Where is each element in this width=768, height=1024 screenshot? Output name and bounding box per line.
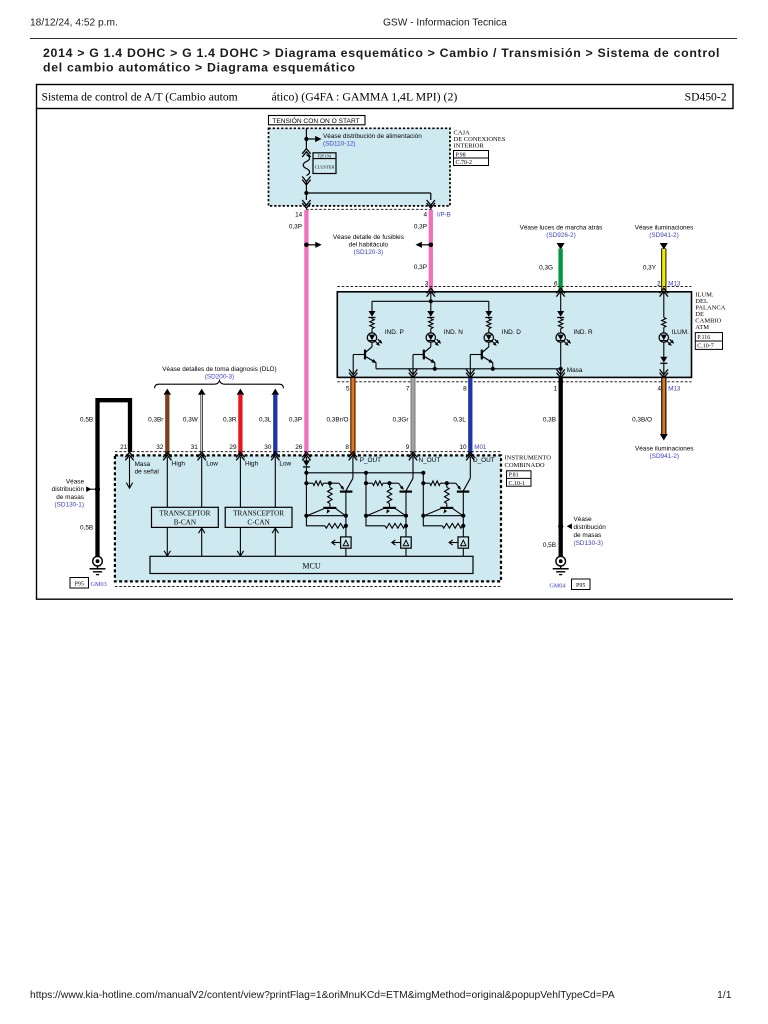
svg-text:M13: M13	[668, 386, 681, 393]
arrow to véase iluminaciones	[660, 434, 668, 441]
svg-text:10: 10	[459, 444, 467, 451]
gauge driver cell D_OUT	[422, 473, 424, 516]
arrow to power distribution note	[306, 138, 315, 140]
svg-text:Véase distribución de alimenta: Véase distribución de alimentación	[323, 133, 422, 140]
feed arrow	[660, 243, 668, 250]
ILUM box top separation dashes	[337, 286, 691, 288]
wire 0,5B signal ground loop	[98, 400, 131, 556]
node: feed junction	[304, 137, 308, 141]
svg-text:IND. P: IND. P	[385, 329, 404, 336]
feedback resistor	[366, 516, 385, 526]
indicator branch IND. P	[371, 301, 373, 311]
svg-text:P95: P95	[75, 582, 84, 588]
fuse label box F28 10A / CLUSTER	[313, 153, 336, 174]
wire 0,3L	[273, 394, 277, 455]
svg-text:CLUSTER: CLUSTER	[315, 165, 335, 170]
wire 0,3L	[468, 378, 472, 455]
wire 0,3W	[200, 394, 202, 455]
svg-text:21: 21	[120, 444, 128, 451]
ref box P95	[70, 578, 89, 589]
svg-text:P_OUT: P_OUT	[360, 457, 381, 464]
svg-text:32: 32	[156, 444, 164, 451]
svg-text:Véase luces de marcha atrás: Véase luces de marcha atrás	[520, 224, 603, 231]
svg-text:C-CAN: C-CAN	[247, 518, 270, 526]
svg-text:C.70-2: C.70-2	[456, 160, 473, 166]
instrument cluster separation dashes	[115, 451, 501, 453]
svg-text:1: 1	[554, 386, 558, 393]
entry arrows	[125, 452, 133, 457]
junction box CAJA DE CONEXIONES INTERIOR (dashed blue)	[269, 128, 451, 206]
svg-text:distribución: distribución	[52, 486, 85, 493]
svg-text:0,3Br/O: 0,3Br/O	[326, 417, 348, 424]
output buffer	[401, 537, 412, 548]
svg-text:de masas: de masas	[574, 532, 602, 539]
LED IND. P	[367, 333, 376, 342]
driver supply rail	[306, 472, 423, 474]
svg-text:0,3Gr: 0,3Gr	[393, 417, 410, 424]
wire 0,3Br/O	[350, 378, 355, 455]
svg-text:IND. R: IND. R	[574, 329, 594, 336]
transistor IND. N driver	[424, 347, 431, 353]
svg-text:SD450-2: SD450-2	[685, 91, 727, 104]
svg-text:0,5B: 0,5B	[80, 417, 93, 424]
TRANSCEPTOR B-CAN	[152, 507, 219, 527]
bias resistor	[446, 483, 448, 487]
ground GM03	[93, 556, 103, 566]
connector ref box P.98 C.70-2	[454, 151, 489, 166]
svg-text:ático) (G4FA : GAMMA 1,4L MPI): ático) (G4FA : GAMMA 1,4L MPI) (2)	[272, 90, 458, 104]
emitter rail	[366, 515, 406, 517]
svg-text:30: 30	[264, 444, 272, 451]
svg-text:I/P-B: I/P-B	[437, 211, 451, 218]
MCU box	[150, 556, 473, 573]
svg-text:1/1: 1/1	[717, 990, 732, 1001]
LED ILUM.	[659, 333, 668, 342]
connector ref box P.116 C.10-7	[695, 333, 722, 350]
signal ground arrow pin 21	[129, 457, 131, 487]
svg-text:Véase: Véase	[574, 516, 593, 523]
svg-text:P.81: P.81	[509, 473, 519, 479]
svg-text:0,3W: 0,3W	[183, 417, 199, 424]
output buffer	[458, 537, 469, 548]
indicator branch IND. D	[488, 301, 490, 311]
svg-text:de masas: de masas	[56, 494, 84, 501]
pin 26 internal diode	[305, 457, 307, 460]
LED IND. R	[556, 333, 565, 342]
ILUM box bottom separation dashes	[337, 381, 691, 383]
connector ref box P.81 C.10-1	[507, 471, 532, 486]
DLD arrow	[164, 389, 172, 395]
svg-text:Low: Low	[279, 461, 291, 468]
svg-text:(SD110-12): (SD110-12)	[323, 140, 356, 147]
svg-text:Véase detalle de fusibles: Véase detalle de fusibles	[333, 234, 404, 241]
svg-text:0,5B: 0,5B	[543, 542, 556, 549]
svg-text:0,3G: 0,3G	[539, 265, 553, 272]
wire 0,3Gr	[411, 378, 416, 455]
node on left pink wire	[304, 243, 309, 248]
wire 0,3B/O to illumination	[661, 378, 666, 434]
svg-text:26: 26	[295, 444, 303, 451]
bias resistor	[329, 483, 331, 487]
svg-text:ATM: ATM	[695, 324, 709, 331]
svg-text:0,3Y: 0,3Y	[643, 265, 657, 272]
instrument cluster box (dashed)	[115, 455, 501, 581]
base wire to pin	[413, 354, 424, 356]
svg-text:7: 7	[406, 386, 410, 393]
svg-text:Véase iluminaciones: Véase iluminaciones	[635, 445, 694, 452]
upper transistor	[390, 482, 399, 484]
feedback resistor	[306, 516, 325, 526]
svg-text:IND. N: IND. N	[444, 329, 464, 336]
svg-text:F28 10A: F28 10A	[317, 153, 331, 158]
connector separation dashes	[306, 208, 432, 210]
svg-text:de señal: de señal	[135, 469, 159, 476]
svg-text:P.98: P.98	[456, 153, 466, 159]
svg-text:8: 8	[463, 386, 467, 393]
transistor IND. D driver	[482, 347, 489, 353]
node mass distribution	[95, 487, 100, 492]
svg-text:Véase: Véase	[66, 479, 85, 486]
svg-text:Masa: Masa	[567, 367, 583, 374]
svg-text:TRANSCEPTOR: TRANSCEPTOR	[159, 510, 210, 518]
svg-text:GM03: GM03	[91, 581, 107, 588]
svg-text:(SD941-2): (SD941-2)	[650, 453, 679, 460]
wire 0,3P left (pin14 to cluster pin26)	[304, 210, 308, 455]
wire 0,3Y	[661, 249, 666, 292]
lower transistor	[383, 507, 396, 509]
indicator branch IND. N	[430, 301, 432, 311]
DLD arrow	[237, 389, 245, 395]
svg-text:18/12/24, 4:52 p.m.: 18/12/24, 4:52 p.m.	[30, 18, 118, 29]
wire 0,3P right (pin4 to ILUM pin3)	[429, 210, 433, 292]
svg-text:0,5B: 0,5B	[80, 525, 93, 532]
svg-text:(SD120-3): (SD120-3)	[354, 249, 383, 256]
svg-text:0,3P: 0,3P	[414, 224, 427, 231]
svg-text:0,3R: 0,3R	[223, 417, 237, 424]
svg-text:INTERIOR: INTERIOR	[454, 143, 485, 150]
DLD arrow	[272, 389, 280, 395]
svg-text:GSW - Informacion Tecnica: GSW - Informacion Tecnica	[383, 18, 507, 29]
entry arrows pins 3 6 2	[427, 288, 435, 293]
ref box P95	[572, 579, 591, 590]
svg-text:Low: Low	[206, 461, 218, 468]
svg-text:2014 > G 1.4 DOHC > G 1.4 DOHC: 2014 > G 1.4 DOHC > G 1.4 DOHC > Diagram…	[43, 46, 720, 60]
feedback resistor	[423, 516, 442, 526]
svg-text:Masa: Masa	[135, 461, 151, 468]
LED IND. N	[426, 333, 435, 342]
svg-text:TRANSCEPTOR: TRANSCEPTOR	[233, 510, 284, 518]
svg-text:Véase detalles de toma diagnos: Véase detalles de toma diagnosis (DLD)	[162, 366, 276, 373]
emitter ground rail	[376, 368, 561, 370]
label TENSION CON ON O START	[269, 116, 366, 125]
diode in ILUM branch	[660, 357, 667, 363]
transistor IND. P driver	[365, 347, 372, 353]
svg-text:4: 4	[424, 211, 428, 218]
svg-text:P95: P95	[576, 583, 585, 589]
svg-text:B-CAN: B-CAN	[174, 518, 197, 526]
svg-text:0,3P: 0,3P	[289, 417, 302, 424]
output buffer	[341, 537, 352, 548]
emitter rail	[306, 515, 346, 517]
svg-text:0,3L: 0,3L	[259, 417, 272, 424]
svg-text:INSTRUMENTO: INSTRUMENTO	[505, 454, 552, 461]
svg-text:0,3P: 0,3P	[289, 224, 302, 231]
base wire to pin	[470, 354, 482, 356]
brace	[155, 381, 284, 389]
svg-text:del habitáculo: del habitáculo	[349, 241, 389, 248]
header rule	[30, 38, 737, 40]
svg-text:Véase iluminaciones: Véase iluminaciones	[635, 224, 694, 231]
svg-text:MCU: MCU	[302, 561, 320, 570]
gauge driver cell N_OUT	[365, 473, 367, 516]
lower transistor	[440, 507, 453, 509]
svg-text:0,3Br: 0,3Br	[148, 417, 164, 424]
svg-text:COMBINADO: COMBINADO	[505, 462, 545, 469]
svg-text:N_OUT: N_OUT	[419, 457, 441, 464]
schematic title box	[37, 85, 734, 109]
svg-text:14: 14	[295, 211, 303, 218]
base wire to pin	[353, 354, 365, 356]
internal feed rail	[430, 292, 432, 302]
svg-text:del cambio automático > Diagra: del cambio automático > Diagrama esquemá…	[43, 61, 356, 75]
node	[304, 191, 308, 195]
svg-text:4: 4	[657, 386, 661, 393]
svg-text:D_OUT: D_OUT	[473, 457, 495, 464]
exit arrows pins 5 7 8 1 4	[349, 369, 357, 374]
transceiver-MCU links	[166, 527, 168, 556]
svg-text:(SD130-1): (SD130-1)	[55, 502, 84, 509]
exit arrow pin 4	[427, 200, 435, 205]
lamp branch ILUM.	[663, 292, 665, 318]
svg-text:GM04: GM04	[549, 583, 565, 590]
svg-text:0,3B: 0,3B	[543, 417, 556, 424]
svg-text:8: 8	[345, 444, 349, 451]
svg-text:https://www.kia-hotline.com/ma: https://www.kia-hotline.com/manualV2/con…	[30, 990, 615, 1001]
TRANSCEPTOR C-CAN	[225, 507, 292, 527]
wire 0,3R	[238, 394, 242, 455]
fuse F28 symbol	[302, 149, 310, 154]
svg-text:0,3B/O: 0,3B/O	[632, 417, 652, 424]
svg-text:31: 31	[191, 444, 199, 451]
gauge driver cell P_OUT	[305, 473, 307, 516]
svg-text:C.10-7: C.10-7	[697, 344, 714, 350]
bias resistor	[389, 483, 391, 487]
wire across to pin 4	[306, 192, 430, 194]
exit arrow pin 14	[302, 200, 310, 205]
shift lever illumination module box	[337, 292, 691, 378]
instrument cluster bottom separation dashes	[115, 585, 501, 587]
CAN wires into transceivers	[166, 457, 168, 507]
feed arrow	[557, 243, 565, 250]
svg-text:(SD926-2): (SD926-2)	[546, 232, 575, 239]
drawing frame left and bottom border	[37, 109, 734, 600]
wire 0,3Br	[165, 394, 169, 455]
indicator branch IND. R	[560, 292, 562, 311]
wire 0,3G	[558, 249, 562, 292]
emitter rail	[423, 515, 463, 517]
upper transistor	[447, 482, 456, 484]
svg-text:5: 5	[346, 386, 350, 393]
node on right pink wire	[429, 243, 434, 248]
wire to junction	[305, 182, 307, 193]
svg-text:P.116: P.116	[697, 335, 710, 341]
svg-text:9: 9	[406, 444, 410, 451]
svg-text:M13: M13	[668, 280, 681, 287]
svg-text:M01: M01	[474, 444, 487, 451]
svg-text:29: 29	[229, 444, 237, 451]
svg-text:TENSIÓN CON ON O START: TENSIÓN CON ON O START	[272, 116, 359, 125]
svg-text:distribución: distribución	[574, 524, 607, 531]
svg-text:0,3L: 0,3L	[453, 417, 466, 424]
svg-text:IND. D: IND. D	[502, 329, 522, 336]
svg-text:Sistema de control de A/T (Cam: Sistema de control de A/T (Cambio autom	[42, 91, 238, 104]
LED IND. D	[484, 333, 493, 342]
wire from fuse box top	[305, 128, 307, 148]
upper transistor	[330, 482, 339, 484]
svg-text:(SD941-2): (SD941-2)	[649, 232, 678, 239]
svg-text:High: High	[245, 461, 259, 468]
ground GM04	[556, 556, 566, 566]
DLD arrow	[198, 389, 206, 395]
lower transistor	[323, 507, 336, 509]
svg-text:High: High	[172, 461, 186, 468]
svg-text:C.10-1: C.10-1	[509, 481, 526, 487]
svg-text:(SD130-3): (SD130-3)	[574, 540, 603, 547]
wire 0,3B to ground	[559, 378, 563, 556]
node mass distribution	[558, 524, 563, 529]
svg-text:ILUM.: ILUM.	[672, 329, 689, 336]
svg-text:0,3P: 0,3P	[414, 264, 427, 271]
